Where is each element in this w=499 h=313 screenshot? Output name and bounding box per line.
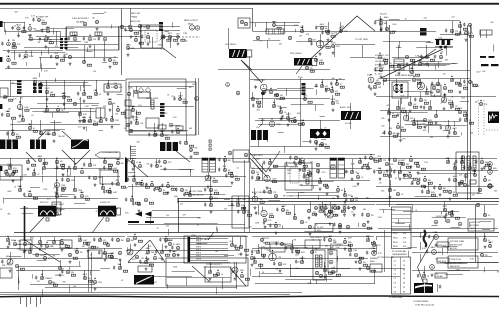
ground [447, 135, 450, 138]
wire [255, 180, 370, 182]
tube V-V318 [172, 253, 175, 256]
ground [147, 42, 150, 45]
capacitor C-C148 [273, 262, 275, 266]
wire junction [154, 131, 155, 132]
capacitor C-C41 [254, 85, 256, 89]
svg-text:6W6: 6W6 [6, 256, 10, 258]
resistor R-R2 [42, 22, 46, 24]
wire junction [315, 56, 316, 57]
wire junction [357, 173, 358, 174]
tube V-V165 [103, 160, 106, 163]
wire [252, 9, 254, 32]
wire [60, 44, 118, 46]
wire [322, 79, 324, 86]
svg-text:AU TAKE OFF: AU TAKE OFF [36, 16, 49, 19]
tube V-V18 [488, 184, 493, 189]
wire [198, 78, 200, 135]
tube V-V72 [33, 80, 36, 83]
tube V-V11 [319, 274, 322, 277]
wire [180, 92, 182, 99]
resistor R-R146 [235, 247, 239, 249]
ground [308, 216, 311, 219]
ground [374, 92, 377, 95]
wire [376, 96, 496, 98]
svg-text:6BL7: 6BL7 [256, 159, 260, 161]
ground [132, 167, 135, 170]
tube V-V137 [396, 106, 399, 109]
wire [190, 244, 228, 246]
svg-text:2.2M: 2.2M [85, 106, 89, 108]
tube V-V145 [479, 102, 482, 105]
tube V-V285 [58, 266, 61, 269]
tube V-V310 [239, 245, 242, 248]
tube V-V129 [450, 78, 453, 81]
ground [12, 139, 15, 142]
resistor R-R81 [106, 190, 110, 192]
wire [84, 80, 86, 94]
svg-text:470: 470 [78, 126, 81, 128]
tube V-V247 [416, 164, 419, 167]
tube V-V117 [373, 85, 376, 88]
terminal [209, 140, 211, 142]
deflection yoke DY1 [414, 283, 433, 293]
capacitor C-C89 [218, 158, 220, 162]
tube V-V297 [116, 238, 119, 241]
wire [330, 202, 332, 215]
wire junction [100, 117, 101, 118]
wire junction [419, 60, 420, 61]
svg-text:CU PERFORMED: CU PERFORMED [389, 297, 403, 299]
capacitor C-C22 [374, 68, 376, 72]
wire [41, 51, 43, 56]
tube V-V13 [329, 260, 333, 264]
resistor R-R66 [401, 110, 405, 112]
ground [439, 193, 442, 196]
interlock cage outline [184, 236, 246, 263]
wire junction [424, 176, 425, 177]
svg-text:150: 150 [256, 172, 259, 174]
wire [442, 248, 444, 255]
resistor R-R39 [121, 112, 125, 114]
wire [328, 22, 330, 33]
resistor 4.7K [158, 125, 166, 129]
tube V-V91 [73, 102, 76, 105]
wire [40, 57, 42, 68]
svg-text:2.2M: 2.2M [43, 189, 47, 191]
resistor R-R158 [348, 244, 352, 246]
svg-text:6AV6: 6AV6 [331, 98, 335, 101]
capacitor C-C55 [414, 98, 416, 102]
tube V-V56 [384, 61, 387, 64]
wire [428, 182, 430, 192]
wire [17, 91, 21, 93]
wire [133, 89, 135, 97]
svg-text:2ND ANODE: 2ND ANODE [192, 194, 204, 197]
tube V-V230 [261, 210, 267, 216]
capacitor C-C119 [458, 183, 460, 187]
wire [99, 130, 103, 132]
potentiometer VR-VR4 [327, 215, 331, 219]
wire diagonal [296, 66, 302, 74]
wire junction [324, 266, 325, 267]
tube V-V258 [388, 188, 391, 191]
tube V-V240 [308, 225, 311, 228]
tube V-V298 [60, 241, 63, 244]
resistor R-R110 [299, 160, 303, 162]
svg-text:.01: .01 [415, 210, 418, 212]
wire [39, 57, 66, 59]
tube V-V251 [408, 174, 411, 177]
ground [373, 250, 376, 253]
wire [302, 25, 304, 31]
resistor R-R56 [325, 146, 329, 148]
svg-text:2.2M: 2.2M [67, 248, 71, 250]
tube V-V28 [88, 37, 92, 41]
wire [54, 120, 56, 134]
wire junction [273, 21, 274, 22]
tube V-V181 [140, 182, 143, 185]
resistor R-R121 [403, 174, 407, 176]
capacitor C-C64 [103, 166, 105, 170]
transformer T6 video IF [160, 142, 178, 151]
svg-text:70: 70 [403, 287, 405, 289]
tube V-V121 [321, 143, 324, 146]
tube V-V280 [106, 243, 109, 246]
capacitor C-C140 [234, 245, 236, 249]
ground [83, 99, 86, 102]
ground [169, 249, 172, 252]
tube V-V179 [138, 164, 141, 167]
wire diagonal [192, 266, 210, 282]
capacitor C-C39 [179, 141, 181, 145]
tube V-V112 [275, 93, 278, 96]
resistor R-R34 [68, 99, 72, 101]
ground [61, 248, 64, 251]
ground [19, 114, 22, 117]
capacitor C-C103 [347, 206, 349, 210]
tube V-V301 [126, 238, 129, 241]
wire [35, 30, 42, 32]
capacitor C-C88 [161, 184, 163, 188]
tube V-V213 [356, 175, 359, 178]
wire [236, 262, 238, 289]
wire junction [135, 36, 136, 37]
wire [472, 81, 474, 86]
tube V-V10 [315, 271, 318, 274]
resistor R-R62 [449, 102, 453, 104]
svg-text:5U4: 5U4 [268, 188, 271, 190]
capacitor C-C81 [175, 188, 177, 192]
wire [389, 19, 400, 21]
tube V-V334 [310, 250, 313, 253]
ground [24, 249, 27, 252]
svg-text:6AL5: 6AL5 [320, 23, 324, 26]
resistor R-R96 [155, 187, 159, 189]
svg-text:45.7: 45.7 [351, 212, 354, 214]
wire junction [319, 178, 320, 179]
svg-text:150: 150 [278, 257, 281, 259]
wire junction [373, 241, 374, 242]
resistor R-R53 [376, 82, 380, 84]
wire [224, 159, 226, 170]
ground [119, 258, 122, 261]
capacitor C-C68 [23, 193, 25, 197]
svg-text:C6: C6 [394, 283, 396, 285]
wire junction [480, 100, 481, 101]
wire [252, 158, 374, 160]
capacitor C-C138 [155, 250, 157, 254]
wire [310, 202, 312, 211]
resistor R-R127 [485, 164, 489, 166]
svg-text:.047: .047 [463, 85, 467, 87]
wire [262, 118, 264, 124]
resistor R-R26 [455, 33, 459, 35]
svg-text:RT PROVISIONAL: RT PROVISIONAL [392, 250, 406, 253]
resistor R-R150 [261, 254, 265, 256]
resistor R-R32 [38, 84, 42, 86]
capacitor C-C82 [218, 168, 220, 172]
ground [319, 187, 322, 190]
ground [96, 27, 99, 30]
wire [22, 213, 33, 215]
wire [390, 180, 392, 190]
wire [250, 162, 252, 168]
tube V-V156 [42, 166, 45, 169]
wire [272, 29, 274, 34]
svg-text:VOL: VOL [385, 55, 389, 57]
wire [384, 131, 386, 135]
wire junction [417, 162, 418, 163]
wire [64, 80, 66, 97]
resistor R-R159 [363, 264, 367, 266]
svg-text:LAST VERT: LAST VERT [253, 154, 264, 157]
wire [378, 78, 470, 80]
resistor R-R126 [455, 217, 459, 219]
wire [54, 237, 56, 242]
svg-text:12AT7: 12AT7 [178, 94, 183, 97]
ground [209, 277, 212, 280]
wire [195, 78, 197, 135]
svg-text:R104: R104 [393, 246, 398, 248]
svg-text:.047: .047 [48, 258, 52, 260]
resistor R-R144 [165, 254, 169, 256]
resistor R-R3 [12, 46, 16, 48]
wire [121, 9, 123, 76]
resistor R-R36 [93, 123, 97, 125]
tube V-V47 [327, 32, 330, 35]
wire junction [413, 120, 414, 121]
tube V-V12 [329, 251, 333, 255]
wire [380, 16, 382, 31]
svg-text:680: 680 [228, 160, 231, 162]
resistor R-R45 [257, 101, 261, 103]
wire junction [131, 196, 132, 197]
svg-text:1B3: 1B3 [402, 113, 405, 115]
ground [190, 155, 193, 158]
ground [424, 185, 427, 188]
resistor R-R22 [389, 65, 393, 67]
tube V-V85 [39, 131, 42, 134]
wire junction [165, 236, 166, 237]
resistor R-R67 [392, 115, 396, 117]
wire [40, 29, 47, 31]
wire junction [161, 131, 162, 132]
wire [130, 130, 188, 132]
tube V-V134 [428, 106, 431, 109]
transformer T9 audio output [341, 111, 361, 120]
resistor R-R70 [463, 114, 467, 116]
wire AGC bus [0, 8, 253, 10]
wire [86, 51, 93, 53]
wire [320, 116, 325, 118]
capacitor C-C49 [368, 85, 370, 89]
capacitor C-C59 [383, 131, 385, 135]
tube V-V111 [269, 90, 272, 93]
tube V-V290 [93, 280, 96, 283]
svg-text:470: 470 [472, 194, 475, 196]
svg-text:ADJ OK: ADJ OK [450, 247, 458, 250]
svg-text:PIN 3: PIN 3 [196, 244, 202, 246]
wire [10, 252, 12, 262]
capacitor C-C75 [132, 202, 134, 206]
wire diagonal [420, 49, 436, 60]
capacitor C-C84 [150, 164, 152, 168]
tube V-V55 [378, 55, 382, 59]
tube V-V22 [46, 29, 49, 32]
terminal strip T2 [312, 59, 317, 66]
ground [303, 175, 306, 178]
svg-text:2.2M: 2.2M [353, 250, 357, 252]
wire [284, 22, 286, 31]
wire [475, 205, 477, 262]
resistor R-R93 [185, 192, 189, 194]
wire [398, 45, 400, 59]
wire [127, 236, 248, 238]
svg-text:VERT: VERT [287, 170, 291, 172]
svg-text:6BN6 GATED BEAM: 6BN6 GATED BEAM [395, 74, 414, 77]
wire [12, 120, 14, 134]
tube V-V248 [378, 170, 381, 173]
tube V-V97 [160, 133, 163, 136]
resistor R-R7 [113, 62, 117, 64]
wire [120, 260, 122, 268]
capacitor C-C51 [315, 142, 317, 146]
resistor R-R69 [428, 122, 432, 124]
svg-text:.01: .01 [14, 187, 17, 189]
wire [440, 34, 468, 36]
wire [0, 176, 120, 178]
tube V-V42 [177, 36, 180, 39]
antenna stub [30, 297, 32, 304]
ground [107, 92, 110, 95]
ground [398, 71, 401, 74]
svg-text:470: 470 [446, 45, 449, 47]
ground [337, 195, 340, 198]
svg-text:150: 150 [128, 262, 131, 264]
wire junction [74, 35, 75, 36]
resistor R-R60 [463, 87, 467, 89]
tube V-V161 [55, 194, 58, 197]
tube V-V77 [106, 85, 109, 88]
wire [376, 186, 494, 188]
capacitor C-C37 [155, 133, 157, 137]
line check box [305, 240, 320, 248]
capacitor C-C149 [295, 260, 297, 264]
tube V-V192 [180, 188, 183, 191]
input jack J1 [0, 88, 8, 97]
tube V-V339 [328, 238, 331, 241]
svg-text:.01: .01 [104, 12, 107, 14]
resistor R-R115 [367, 227, 371, 229]
wire [93, 13, 105, 15]
tube V-V128 [443, 86, 446, 89]
wire [252, 92, 254, 99]
wire [368, 237, 370, 240]
wire junction [29, 191, 30, 192]
resistor R-R71 [469, 122, 473, 124]
capacitor C-C47 [325, 89, 327, 93]
wire junction [45, 35, 46, 36]
capacitor C-C2 [23, 26, 25, 30]
tube V-V157 [55, 160, 59, 164]
wire junction [484, 236, 485, 237]
svg-text:PIN 4: PIN 4 [196, 247, 202, 249]
wire [128, 158, 250, 160]
wire junction [46, 242, 47, 243]
capacitor C-C46 [315, 84, 317, 88]
svg-text:.01: .01 [451, 97, 454, 99]
ground [332, 51, 335, 54]
wire heater bus 2 [0, 292, 302, 294]
capacitor C-C92 [258, 176, 260, 180]
wire [26, 62, 28, 65]
wire [424, 266, 426, 276]
tube V-V327 [323, 268, 326, 271]
resistor R-R28 [469, 35, 473, 37]
tube V-V228 [298, 161, 301, 164]
wire junction [83, 117, 84, 118]
svg-text:6U8: 6U8 [116, 180, 119, 182]
tube V-V265 [488, 166, 491, 169]
wire junction [301, 27, 302, 28]
svg-text:R103: R103 [393, 242, 398, 244]
resistor R-R132 [83, 242, 87, 244]
wire [102, 176, 104, 188]
tube V-V302 [133, 236, 136, 239]
wire [302, 256, 304, 262]
capacitor C-C34 [105, 118, 107, 122]
resistor R-R9 [134, 32, 138, 34]
svg-text:680: 680 [393, 133, 396, 135]
svg-text:SPEAKER: SPEAKER [370, 257, 379, 260]
ground [324, 213, 327, 216]
ground [344, 247, 347, 250]
capacitor C-yoke [439, 285, 441, 289]
coil L2a [33, 83, 37, 93]
tube V-V90 [116, 108, 119, 111]
capacitor C-C61 [56, 188, 58, 192]
svg-text:RT PROVISIONAL: RT PROVISIONAL [378, 256, 394, 259]
capacitor C-C76 [204, 188, 206, 192]
wire [5, 29, 7, 34]
ground [343, 213, 346, 216]
tube V-V229 [336, 188, 339, 191]
ground [177, 42, 180, 45]
wire [376, 244, 378, 252]
wire diagonal [25, 240, 60, 262]
tube V-V58 [397, 64, 401, 68]
capacitor C-C45 [264, 90, 266, 94]
